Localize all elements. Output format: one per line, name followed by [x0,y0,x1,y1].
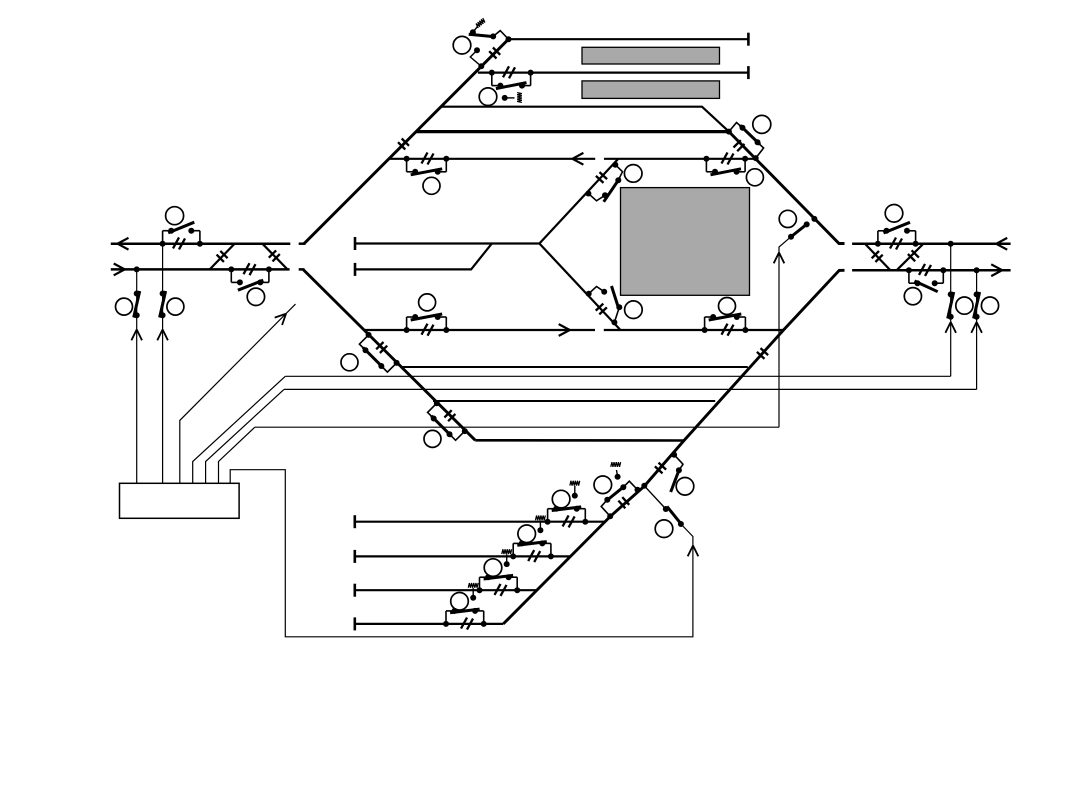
insulated joint big left diagonal low [398,139,409,150]
signal lamp yard branch [655,520,673,538]
arrow yard loop vertical [688,546,699,557]
wire diamond upper diagonal [539,159,618,244]
signal lamp 12 [904,288,921,305]
switch points 15 bracket low [359,335,368,353]
switch points 15 node A [366,332,372,338]
spring catch 0 coil [475,18,486,28]
arrow right main lower [991,264,1002,276]
buffer stop siding 1 [353,515,356,528]
arrow on track 5 [572,153,583,165]
platform upper [582,47,720,64]
wire yard siding 2 [355,555,571,557]
spring yard catch 3 [504,554,510,567]
spring yard catch 4 coil [468,583,478,588]
switch points 1 bracket [489,70,534,89]
wire track 6 left [365,329,595,331]
switch points 8 node B [753,155,759,161]
switch points 14 bracket low [601,497,610,517]
switch points 16 blade [431,416,452,437]
switch points 11 bracket [875,222,919,247]
buffer stop siding 3 [353,584,356,597]
wire thick track y440 [475,439,684,442]
wire box lead A diagonal [180,304,296,483]
wire route line y389 [284,388,977,390]
switch points 16 bracket low [428,403,437,421]
switch contact diamond release [788,216,817,240]
spring yard catch 3 coil [502,549,512,554]
switch points 0 blade [469,34,494,36]
switch yard points 2 bracket [510,540,554,559]
switch points 5 bracket [404,314,450,333]
switch points 14 bracket up [620,481,637,490]
switch points 14 node A [607,513,613,519]
switch yard points 3 bracket [477,574,521,593]
wire track 3 [441,107,729,132]
wire crossover left A [210,244,235,270]
wire box lead D [219,427,255,483]
wire route line y427 [255,426,779,428]
wire right crossover 2 [897,244,924,270]
switch yard points 1 slashes [563,515,575,527]
buffer stop track 1 [747,33,750,46]
signal lamp 15 [341,354,358,371]
arrow left main upper [118,238,129,250]
buffer stop track 2 [747,66,750,79]
switch points 11 slashes [890,238,902,250]
switch points 3 slashes [244,263,256,275]
signal yard lamp 1 [552,490,570,508]
wire right upper thick diagonal [729,132,845,244]
wire left vertical x136 [136,269,138,483]
wire route line y376 [285,375,950,377]
spring yard catch 2 coil [535,516,545,521]
platform big gray building [621,188,750,296]
switch points 0 pivot [470,27,478,36]
buffer stop middle stub 1 [354,237,357,250]
switch points 10 bracket [589,287,608,295]
switch points 6 slashes [722,153,734,165]
switch points 0 node [506,36,512,42]
buffer stop siding 2 [353,550,356,563]
switch points 16 node A [434,400,440,406]
switch points 3 bracket [228,266,272,290]
signal lamp 0 [453,36,471,54]
signal lamp right 2 [981,297,998,314]
wire thick main track 4 [416,130,729,133]
wire right vertical 2 [976,270,978,389]
wire track y401 [433,400,715,402]
arrow box lead A [275,314,286,325]
arrow vertical x779 [774,253,785,264]
insulated joint right crossover 2 [908,250,919,261]
signal lamp 5 [419,294,436,311]
switch points 10 node A [586,291,592,297]
insulated joint right diagonal [734,140,745,151]
wire top siding track 1 [509,38,749,40]
insulated joint ladder siding1 [618,497,629,508]
switch points 8 node A [726,129,732,135]
switch points 10 blade [612,286,619,308]
wire left lower stub after gap [299,268,305,271]
wire track 5 left [388,158,595,160]
insulated joint D4 lower [444,410,455,421]
node right vertical 2 top [974,267,980,273]
switch yard points 4 slashes [461,618,473,630]
signal lamp 6 [746,169,763,186]
signal lamp 4 [423,177,440,194]
switch contact yard branch [641,483,684,527]
wire big left diagonal [304,39,509,244]
wire diamond vertical x779 [779,237,791,428]
wire crossover left B [262,244,287,269]
buffer stop middle stub 2 [354,263,357,276]
wire track 6 right [604,329,784,331]
arrow right vertical 2 [971,322,982,333]
switch points 9 bracket [615,165,622,184]
signal yard lamp 4 [451,593,469,611]
switch yard points 1 bracket [545,506,589,525]
arrow right main upper [996,238,1007,250]
signal yard lamp 2 [518,525,536,543]
insulated joint crossover left A [217,251,228,262]
switch contact right vertical 2 [974,291,980,319]
switch points 10 node B [611,319,617,325]
signal lamp 14 [594,476,612,494]
spring catch 14 coil [611,462,621,467]
switch contact right vertical 1 [948,291,954,319]
arrow left vertical 2 [157,330,168,341]
signal lamp 13 [676,478,694,496]
spring yard catch 1 [572,486,578,499]
signal lamp right 1 [956,297,973,314]
insulated joint D4 upper [376,342,387,353]
spring yard catch 4 [470,588,476,601]
switch points 1 slashes [503,66,515,78]
wire left vertical x162 [162,244,164,484]
switch points 12 slashes [919,264,931,276]
arrow right vertical 1 [945,322,956,333]
arrow left main lower [114,264,125,276]
wire yard siding 1 [355,521,605,523]
switch points 10 lower [614,304,622,322]
signal lamp 7 [719,298,736,315]
switch contact left vertical 1 [134,291,140,319]
signal lamp diamond release [779,210,796,227]
insulated joint diamond upper [596,172,607,183]
arrow track 6 [559,324,570,336]
wire right crossover 1 [865,244,890,270]
switch points 15 blade [363,348,384,369]
spring catch 1 stem [502,95,515,101]
switch points 16 bracket up [447,431,465,440]
wire right main lower [852,269,1011,272]
switch yard points 2 slashes [528,550,540,562]
switch points 6 bracket [703,156,748,175]
switch points 8 lower [755,139,764,158]
signal lamp 1 [479,88,497,106]
signal lamp 9 [624,165,642,183]
signal lamp 2 [166,207,184,225]
wire middle stub track 1 [355,242,539,244]
switch points 14 blade [606,485,626,501]
switch points 15 bracket up [378,363,396,372]
signal lamp 3 [247,288,264,305]
control box [120,483,240,518]
insulated joint ladder y468 [655,463,666,474]
wire left lower thick diagonal [303,269,475,440]
insulated joint right crossover 1 [872,251,883,262]
arrow left vertical 1 [131,330,142,341]
wire box loop around yard [230,470,693,637]
switch points 4 bracket [404,156,450,175]
switch yard points 3 slashes [495,584,507,596]
switch points 13 node [671,452,677,458]
wire diamond lower diagonal [539,244,620,330]
switch points 14 node B [635,487,641,493]
wire top siding track 2 [478,71,749,73]
signal lamp 16 [424,430,441,447]
signal lamp 11 [885,205,903,223]
switch detector node upper [470,47,484,69]
switch points 2 slashes [173,237,185,249]
signal lamp left 1 [116,298,133,315]
wire left main upper [111,242,290,245]
wire track y367 [402,366,748,368]
node right vertical 1 top [948,241,954,247]
switch points 13 blade [671,470,679,492]
switch points 9 node A [612,162,618,168]
switch points 9 lower [588,192,608,201]
switch points 8 blade [740,125,760,144]
switch points 7 slashes [722,324,734,336]
switch contact left vertical 2 [160,291,166,319]
wire left main lower [111,268,290,271]
signal lamp left 2 [167,298,184,315]
switch points 12 bracket [906,267,946,292]
wire track 5 right [604,158,756,160]
signal yard lamp 3 [484,559,502,577]
switch points 7 bracket [702,314,749,333]
spring yard catch 2 [537,521,543,534]
wire box lead B [193,376,286,483]
buffer stop siding 4 [353,617,356,630]
spring yard catch 1 coil [570,481,580,486]
spring catch 14 [615,470,621,480]
switch yard points 4 bracket [443,608,487,627]
wire right main upper [852,243,1011,246]
node lower main left [134,266,140,272]
wire right vertical 1 [950,244,952,376]
wire left upper stub after gap [299,242,306,245]
wire middle stub track 2 [355,244,492,270]
signal lamp 10 [625,301,643,319]
insulated joint ladder upper [757,348,768,359]
wire yard siding 4 [355,623,504,625]
switch points 15 node B [394,360,400,366]
wire yard siding 3 [355,589,537,591]
signal lamp 8 [753,115,771,133]
switch points 5 slashes [422,324,434,336]
insulated joint diamond lower [596,304,607,315]
switch points 8 bracket [729,123,746,132]
switch points 0 bracket [490,31,508,40]
insulated joint crossover left B [269,250,280,261]
switch points 9 node B [585,191,591,197]
platform lower [582,81,720,99]
switch points 2 bracket [160,222,203,247]
wire big right diagonal ladder [503,270,844,624]
switch points 4 slashes [422,153,434,165]
switch points 16 node B [462,428,468,434]
switch points 9 blade [604,178,620,202]
insulated joint top diagonal [489,48,500,59]
switch points 13 bracket [674,455,683,474]
spring catch 1 coil [517,93,522,103]
wire box lead C [206,389,284,483]
